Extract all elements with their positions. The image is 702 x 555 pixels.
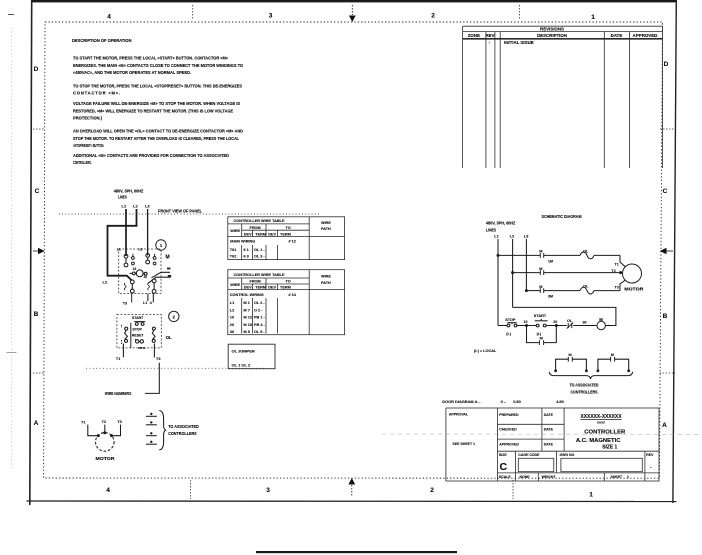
- svg-text:DATE: DATE: [544, 442, 554, 446]
- motor lead T1: [88, 425, 98, 436]
- svg-text:D: D: [664, 61, 669, 68]
- svg-text:TO ASSOCIATED: TO ASSOCIATED: [570, 383, 599, 388]
- wire stub below PB box right: [153, 344, 155, 358]
- svg-text:WIRE NUMBERS: WIRE NUMBERS: [105, 391, 132, 396]
- svg-text:13: 13: [133, 267, 137, 271]
- svg-text:SEE SHEET 1: SEE SHEET 1: [453, 442, 476, 446]
- svg-text:DWG NO: DWG NO: [560, 453, 575, 457]
- svg-text:-: -: [650, 465, 652, 470]
- svg-text:PREPARED: PREPARED: [499, 413, 519, 417]
- node 20 dot: [555, 324, 558, 327]
- svg-text:OL JUMPER: OL JUMPER: [232, 349, 255, 354]
- node dot L3 branch: [525, 289, 528, 292]
- contactor pole 1 terminals: [124, 254, 128, 267]
- contactor coil: [130, 270, 148, 277]
- overload heater OL branch 1: [580, 252, 594, 259]
- zone numbers bottom: [106, 487, 593, 499]
- svg-text:DEV: DEV: [244, 286, 252, 290]
- svg-text:L1: L1: [122, 204, 127, 209]
- phase branch 1 wire: [498, 255, 625, 267]
- OL jumper note box: [228, 344, 275, 369]
- svg-text:«480VAC», AND THE MOTOR OPERAT: «480VAC», AND THE MOTOR OPERATES AT NORM…: [73, 70, 191, 75]
- svg-text:NONE: NONE: [520, 475, 531, 479]
- centering arrow top: [349, 5, 356, 22]
- wire stub exit 1: [152, 272, 171, 278]
- svg-text:A: A: [662, 422, 667, 429]
- wire L2 vertical: [512, 239, 514, 307]
- overload heater left squiggle: [124, 283, 126, 290]
- svg-text:T3: T3: [117, 420, 121, 424]
- svg-text:T1: T1: [116, 357, 120, 361]
- svg-text:TO: TO: [286, 226, 291, 230]
- svg-text:L2: L2: [230, 309, 234, 313]
- svg-text:L1: L1: [230, 301, 234, 305]
- svg-text:VOLTAGE FAILURE WILL DE-ENERGI: VOLTAGE FAILURE WILL DE-ENERGIZE «M» TO …: [73, 101, 240, 106]
- svg-text:DEV: DEV: [268, 232, 276, 236]
- contactor bottom pole 1: [130, 280, 134, 293]
- svg-text:-: -: [489, 40, 491, 45]
- description of operation text: [72, 38, 244, 165]
- svg-text:L3: L3: [145, 204, 150, 209]
- svg-text:3M: 3M: [548, 295, 553, 299]
- svg-text:AN OVERLOAD WILL OPEN THE «OL»: AN OVERLOAD WILL OPEN THE «OL» CONTACT T…: [73, 129, 243, 134]
- svg-text:L3: L3: [524, 234, 529, 239]
- svg-text:6 1: 6 1: [244, 248, 249, 252]
- wire number mark 2: [168, 275, 171, 277]
- panel fold dotted line lower: [86, 367, 266, 369]
- control feed wire from L2: [513, 307, 616, 325]
- node dot motor T2: [619, 271, 622, 274]
- revisions table: [463, 26, 663, 168]
- pushbutton unit bracket line: [130, 323, 132, 348]
- svg-text:20: 20: [230, 323, 234, 327]
- svg-text:C: C: [500, 461, 508, 473]
- svg-text:REV: REV: [485, 33, 494, 38]
- inner dashed border: [44, 22, 663, 478]
- revision row: initial issue: [489, 40, 534, 45]
- svg-text:CONTROLLERS: CONTROLLERS: [571, 390, 598, 395]
- svg-text:M: M: [539, 284, 542, 289]
- svg-text:STOP: STOP: [132, 328, 142, 332]
- svg-text:CAGE CODE: CAGE CODE: [518, 453, 540, 457]
- wire L2 heavy routed path: [108, 209, 137, 281]
- wire stub below PB box left: [122, 344, 124, 358]
- wire number mark 1: [167, 268, 170, 270]
- svg-text:START: START: [132, 316, 144, 320]
- svg-text:CONTROL WIRING: CONTROL WIRING: [230, 293, 264, 297]
- svg-text:4: 4: [106, 487, 110, 494]
- svg-text:ENERGIZES. THE MAIN «M» CONTA: ENERGIZES. THE MAIN «M» CONTACTS CLOSE T…: [73, 63, 244, 68]
- svg-text:REVISIONS: REVISIONS: [540, 26, 564, 31]
- aux contact M block 2: [598, 357, 629, 371]
- pushbutton left spring element: [122, 325, 128, 344]
- svg-text:L1: L1: [494, 234, 499, 239]
- associated controller stub 2: [146, 421, 157, 425]
- svg-text:CONTROLLER: CONTROLLER: [584, 429, 625, 435]
- svg-text:14: 14: [143, 275, 147, 279]
- motor lead T2: [104, 425, 106, 433]
- underbrace: [549, 372, 632, 379]
- svg-text:DESCRIPTION: DESCRIPTION: [537, 33, 567, 38]
- svg-text:APPROVED: APPROVED: [499, 442, 519, 446]
- svg-text:WIRE: WIRE: [230, 229, 240, 233]
- svg-text:MTG.: MTG.: [138, 346, 146, 350]
- svg-text:2: 2: [431, 13, 435, 20]
- svg-text:LINES: LINES: [486, 227, 496, 232]
- wire table 2 (control wiring): [228, 270, 345, 335]
- svg-text:M: M: [569, 353, 572, 357]
- motor M1: [623, 264, 642, 283]
- svg-text:DEV: DEV: [268, 286, 276, 290]
- svg-text:T3: T3: [156, 357, 160, 361]
- svg-text:FROM: FROM: [250, 226, 261, 230]
- svg-text:0 –: 0 –: [501, 399, 507, 404]
- svg-text:RESTORED, «M» WILL ENERGIZE TO: RESTORED, «M» WILL ENERGIZE TO RESTART T…: [73, 108, 233, 113]
- svg-text:M: M: [611, 353, 614, 357]
- wire L3 vertical: [525, 239, 527, 291]
- svg-text:ADDITIONAL «M» CONTACTS ARE PR: ADDITIONAL «M» CONTACTS ARE PROVIDED FOR…: [73, 153, 229, 158]
- wire table 1 (main wiring): [228, 217, 345, 260]
- svg-text:T3: T3: [123, 301, 127, 305]
- svg-text:SCHEMATIC DIAGRAM: SCHEMATIC DIAGRAM: [542, 214, 582, 219]
- zone numbers top: [107, 13, 595, 22]
- svg-text:PB 1 -: PB 1 -: [254, 316, 265, 320]
- svg-text:L2: L2: [103, 280, 108, 285]
- centering arrow right: [660, 248, 673, 254]
- phase branch 2 wire: [513, 272, 623, 275]
- brace to associated controllers: [159, 411, 166, 450]
- svg-text:OL: OL: [583, 248, 589, 253]
- svg-text:DESCRIPTION OF OPERATION: DESCRIPTION OF OPERATION: [72, 38, 132, 43]
- svg-text:A: A: [34, 420, 39, 427]
- svg-text:4: 4: [150, 301, 152, 305]
- svg-text:TERM: TERM: [255, 286, 266, 290]
- bottom scan bar: [256, 551, 457, 553]
- wire stub below right: [152, 294, 154, 303]
- svg-text:SHEET: SHEET: [611, 475, 624, 479]
- svg-text:480V, 3PH, 60HZ: 480V, 3PH, 60HZ: [114, 188, 144, 193]
- motor terminal dots: [97, 434, 100, 437]
- scan artifact left margin line: [11, 28, 13, 468]
- svg-text:MOTOR: MOTOR: [96, 456, 116, 461]
- node 10 dot: [525, 324, 528, 327]
- svg-text:MOTOR: MOTOR: [624, 286, 644, 291]
- svg-text:TO STOP THE MOTOR, PRESS THE L: TO STOP THE MOTOR, PRESS THE LOCAL «STOP…: [73, 83, 242, 88]
- svg-text:1: 1: [160, 243, 163, 248]
- svg-text:T2: T2: [102, 420, 106, 424]
- revisions table headers: [468, 26, 658, 38]
- svg-text:10: 10: [524, 320, 528, 324]
- svg-text:FRONT VIEW OF PANEL: FRONT VIEW OF PANEL: [158, 209, 202, 214]
- panel supply label 480V 3PH 60HZ LINES: [114, 188, 144, 199]
- pushbutton station dashed enclosure: [117, 315, 161, 348]
- contact OL normally closed: [567, 323, 573, 329]
- svg-text:M: M: [539, 249, 542, 254]
- svg-text:OL 2 -: OL 2 -: [254, 301, 265, 305]
- svg-text:CONTACTOR «M».: CONTACTOR «M».: [73, 91, 120, 96]
- svg-text:M 10: M 10: [244, 323, 252, 327]
- svg-text:OL 3 -: OL 3 -: [254, 254, 265, 258]
- svg-text:TO START THE MOTOR, PRESS THE: TO START THE MOTOR, PRESS THE LOCAL «STA…: [73, 55, 229, 60]
- svg-text:APPROVED: APPROVED: [633, 33, 658, 38]
- svg-text:0.50: 0.50: [513, 399, 521, 404]
- svg-text:OL: OL: [567, 319, 573, 323]
- svg-text:(L): (L): [537, 332, 542, 336]
- balloon 1: [156, 240, 166, 250]
- svg-text:TO: TO: [286, 280, 291, 284]
- svg-text:WEIGHT: WEIGHT: [542, 475, 557, 479]
- svg-text:(L) = LOCAL: (L) = LOCAL: [474, 349, 497, 353]
- outer border top bar: [32, 0, 677, 2]
- wire stub below mid: [147, 294, 149, 301]
- balloon 2: [169, 311, 179, 321]
- node dot L2 branch: [511, 271, 514, 274]
- centering arrow bottom: [348, 478, 355, 497]
- wire L1 drop: [125, 209, 127, 256]
- svg-text:XXXX: XXXX: [597, 421, 605, 425]
- title block frame: [446, 408, 659, 481]
- svg-text:CONTROLLERS.: CONTROLLERS.: [73, 160, 92, 165]
- start button symbol: [134, 322, 145, 326]
- svg-text:1: 1: [627, 475, 629, 479]
- svg-text:1: 1: [589, 492, 593, 499]
- wire stub below pole T1: [131, 294, 133, 303]
- svg-text:START: START: [534, 314, 547, 318]
- svg-text:L1: L1: [143, 301, 147, 305]
- svg-text:DATE: DATE: [611, 33, 623, 38]
- outer border left: [30, 0, 32, 505]
- contact M branch 1: [540, 253, 543, 258]
- stop reset button symbol: [135, 339, 143, 343]
- svg-text:WIRE: WIRE: [321, 221, 331, 225]
- svg-text:M 7: M 7: [244, 309, 250, 313]
- svg-text:TERM: TERM: [280, 286, 291, 290]
- svg-text:M: M: [539, 266, 542, 271]
- svg-text:PATH: PATH: [321, 281, 331, 285]
- outer border bottom: [27, 500, 677, 503]
- svg-text:C: C: [663, 188, 668, 195]
- seal-in branch wire: [527, 326, 557, 343]
- svg-text:T1: T1: [81, 421, 85, 425]
- svg-text:OL: OL: [583, 284, 589, 289]
- svg-text:2: 2: [173, 314, 176, 319]
- svg-text:T2: T2: [612, 269, 616, 273]
- diagram scale note: [442, 399, 563, 404]
- wire numbers leader line: [145, 363, 159, 394]
- svg-text:OL 5 -: OL 5 -: [254, 330, 265, 334]
- svg-text:REV: REV: [646, 453, 654, 457]
- svg-text:6 3: 6 3: [244, 254, 249, 258]
- svg-text:WIRE: WIRE: [321, 275, 331, 279]
- scan artifact fold line: [382, 433, 702, 435]
- svg-text:PATH: PATH: [321, 227, 331, 231]
- svg-text:PROTECTION.): PROTECTION.): [73, 115, 103, 120]
- svg-text:STOP: STOP: [505, 318, 516, 322]
- svg-text:INITIAL ISSUE: INITIAL ISSUE: [504, 40, 534, 45]
- wire L3 drop: [147, 209, 149, 256]
- overload heater OL branch 3: [580, 287, 594, 294]
- svg-text:30: 30: [230, 330, 234, 334]
- svg-text:M: M: [540, 337, 543, 341]
- svg-text:L2: L2: [133, 204, 138, 209]
- svg-text:CHECKED: CHECKED: [499, 428, 517, 432]
- aux contact M block 1: [556, 357, 587, 371]
- svg-text:SCALE: SCALE: [499, 475, 512, 479]
- svg-text:2: 2: [430, 487, 434, 494]
- associated controller stub 4: [146, 441, 157, 445]
- svg-text:DEV: DEV: [244, 232, 252, 236]
- svg-text:1: 1: [591, 14, 595, 21]
- coil M: [597, 321, 605, 329]
- svg-text:C: C: [35, 188, 40, 195]
- contact M branch 2: [540, 270, 543, 275]
- svg-text:SIZE: SIZE: [499, 453, 507, 457]
- svg-text:# 14: # 14: [289, 293, 297, 297]
- svg-text:B: B: [663, 313, 668, 320]
- svg-text:M 12: M 12: [244, 316, 252, 320]
- svg-text:TERM: TERM: [280, 232, 291, 236]
- phase branch 3 wire: [526, 280, 625, 291]
- svg-text:M: M: [599, 317, 603, 322]
- svg-text:A.C. MAGNETIC: A.C. MAGNETIC: [576, 438, 621, 444]
- wire stub exit 2: [148, 277, 171, 283]
- svg-text:DATE: DATE: [544, 413, 554, 417]
- contactor M dashed enclosure: [119, 249, 161, 294]
- svg-text:DOOR DIAGRAM A –: DOOR DIAGRAM A –: [442, 399, 481, 404]
- node dot L1 branch: [497, 254, 500, 257]
- zone letters left: [34, 66, 40, 427]
- svg-text:CONTROLLER WIRE TABLE: CONTROLLER WIRE TABLE: [234, 273, 285, 277]
- svg-text:CONTROLLERS: CONTROLLERS: [168, 431, 197, 436]
- svg-text:OL 1 -: OL 1 -: [254, 248, 265, 252]
- stop pushbutton PB (L): [507, 323, 517, 327]
- contactor pole aux b: [153, 254, 156, 265]
- contact M seal-in: [539, 340, 543, 345]
- svg-text:3: 3: [266, 487, 270, 494]
- title block labels: [449, 413, 654, 479]
- svg-text:T3: T3: [615, 285, 619, 289]
- svg-text:PB 4 -: PB 4 -: [254, 323, 265, 327]
- zone letters right: [662, 61, 669, 429]
- svg-text:MAIN WIRING: MAIN WIRING: [230, 239, 255, 243]
- svg-text:30: 30: [583, 320, 587, 324]
- associated controller stub 3: [146, 432, 157, 436]
- svg-text:D: D: [34, 66, 39, 73]
- svg-text:(L): (L): [506, 332, 511, 336]
- svg-text:«STOP/RESET» BUTTON.: «STOP/RESET» BUTTON.: [73, 143, 104, 148]
- svg-text:1M: 1M: [548, 260, 553, 264]
- svg-text:B: B: [34, 311, 39, 318]
- associated controller stub 1: [146, 413, 157, 417]
- overload heater right squiggle: [148, 283, 150, 290]
- svg-text:ZONE: ZONE: [468, 33, 480, 38]
- contactor bottom pole 2: [152, 279, 156, 293]
- svg-text:L1: L1: [117, 248, 121, 252]
- control rung wire: [498, 325, 597, 327]
- schematic supply label: [486, 221, 516, 233]
- svg-text:20: 20: [553, 320, 557, 324]
- svg-text:DATE: DATE: [544, 428, 554, 432]
- svg-text:480V, 3PH, 60HZ: 480V, 3PH, 60HZ: [486, 221, 516, 226]
- svg-text:10: 10: [230, 316, 234, 320]
- motor lead T3: [112, 425, 121, 436]
- contact M branch 3: [540, 288, 543, 293]
- svg-text:SIZE 1: SIZE 1: [602, 445, 617, 451]
- wire L1 vertical: [497, 239, 499, 326]
- svg-text:L2: L2: [510, 234, 515, 239]
- svg-text:L3: L3: [139, 248, 143, 252]
- svg-text:M: M: [166, 254, 170, 260]
- svg-text:4.50: 4.50: [556, 399, 564, 404]
- contactor pole aux a: [132, 254, 135, 265]
- motor dashed circle: [96, 433, 115, 452]
- svg-text:M 5: M 5: [244, 330, 250, 334]
- svg-text:FROM: FROM: [250, 280, 261, 284]
- svg-text:OL 1 OL 2: OL 1 OL 2: [232, 363, 252, 368]
- centering arrow left: [33, 248, 45, 254]
- svg-text:TERM: TERM: [255, 232, 266, 236]
- svg-text:T1: T1: [615, 262, 619, 266]
- svg-text:M 1: M 1: [244, 301, 250, 305]
- svg-text:T62: T62: [230, 254, 237, 258]
- svg-text:# 12: # 12: [289, 239, 296, 243]
- panel fold dotted line upper: [59, 213, 319, 215]
- svg-text:TO ASSOCIATED: TO ASSOCIATED: [168, 424, 199, 429]
- svg-text:WIRE: WIRE: [230, 283, 240, 287]
- svg-text:LINES: LINES: [118, 194, 127, 199]
- svg-text:CONTROLLER WIRE TABLE: CONTROLLER WIRE TABLE: [234, 219, 285, 223]
- overload reset mechanism: [152, 327, 155, 342]
- svg-text:4: 4: [107, 14, 111, 21]
- svg-text:OL: OL: [166, 335, 172, 340]
- svg-text:T61: T61: [230, 248, 237, 252]
- svg-text:3: 3: [269, 13, 273, 20]
- contactor pole 3 terminals: [146, 254, 150, 264]
- svg-text:STOP THE MOTOR. TO RESTART AF: STOP THE MOTOR. TO RESTART AFTER THE OVE…: [73, 136, 239, 141]
- start pushbutton PB (L): [535, 319, 548, 327]
- svg-text:RESET: RESET: [132, 333, 145, 337]
- svg-text:O 2 -: O 2 -: [254, 309, 263, 313]
- svg-text:APPROVAL: APPROVAL: [449, 413, 469, 417]
- outer border right: [673, 0, 676, 503]
